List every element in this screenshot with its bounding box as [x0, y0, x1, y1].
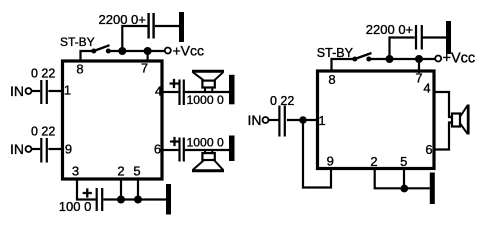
wire cap to pin9: [48, 148, 62, 150]
node junction pin5 (right): [400, 185, 408, 193]
wire 2200uF branch (left): [122, 26, 147, 51]
wire pin8 to switch (right): [332, 59, 355, 71]
ground bar (bottom right): [430, 173, 435, 205]
pin 6 label (left IC): [154, 142, 161, 157]
terminal +Vcc (left): [165, 43, 204, 59]
svg-text:2: 2: [117, 164, 124, 179]
node junction pin7 (left rail): [144, 47, 152, 55]
wire pin5 stub (right): [403, 170, 405, 189]
svg-text:2200 0+: 2200 0+: [366, 22, 413, 37]
speaker LS2 (left ch2): [192, 150, 224, 171]
pin 5 label (right IC): [400, 154, 407, 169]
wire cap to ground (right 2200): [422, 36, 446, 38]
ground bar (right 2200): [446, 21, 451, 54]
capacitor 0.22 input1 (left): [41, 80, 47, 104]
input terminal IN (right): [248, 112, 269, 128]
wire feedback loop to pin9 (right): [303, 120, 331, 188]
switch SW1 ST-BY (left): [91, 45, 111, 53]
wire pin2 stub (left): [120, 181, 122, 200]
wire cap to ground (left 2200): [155, 25, 179, 27]
wire Vcc rail (right): [369, 58, 435, 60]
svg-text:+Vcc: +Vcc: [173, 43, 205, 59]
terminal +Vcc (right): [435, 51, 475, 67]
wire Vcc rail (left): [109, 50, 164, 52]
input terminal IN2 (left bottom): [10, 141, 32, 157]
pin 2 label (right IC): [370, 154, 377, 169]
svg-text:+: +: [169, 74, 179, 94]
wire pin4 to speaker (right): [436, 92, 452, 117]
pin 4 label (right IC): [423, 81, 430, 96]
polarity + (100uF cap): [82, 183, 92, 203]
label ST-BY (left): [60, 35, 95, 49]
svg-text:6: 6: [425, 142, 432, 157]
svg-text:9: 9: [65, 142, 72, 157]
wire pin8 to switch (left): [81, 51, 94, 61]
svg-text:+: +: [169, 132, 179, 152]
ground bar (ch2): [229, 136, 235, 162]
pin 1 label (right IC): [318, 113, 325, 128]
ground bar (bottom left): [166, 184, 171, 215]
svg-text:8: 8: [328, 72, 335, 87]
wire cap to pin1 (right): [287, 119, 317, 121]
wire cap to ground (ch1): [185, 91, 229, 93]
pin 4 label (left IC): [155, 84, 162, 99]
pin 8 label (right IC): [328, 72, 335, 87]
svg-text:1: 1: [64, 83, 71, 98]
switch SW2 ST-BY (right): [352, 53, 371, 62]
wire pin7 stub (right): [418, 59, 420, 73]
capacitor 2200.0 (left): [149, 13, 154, 39]
node junction pin7 (right rail): [415, 55, 423, 63]
pin 9 label (left IC): [65, 142, 72, 157]
pin 1 label (left IC): [64, 83, 71, 98]
svg-text:0 22: 0 22: [31, 67, 55, 81]
value label 1000 0 (ch2): [187, 135, 224, 149]
svg-text:5: 5: [400, 154, 407, 169]
value label 2200 0+ (left): [99, 12, 146, 27]
node junction cap branch (left rail): [118, 47, 126, 55]
wire cap to ground (bottom left): [103, 198, 166, 200]
svg-text:8: 8: [76, 62, 83, 77]
svg-text:4: 4: [155, 84, 162, 99]
svg-text:6: 6: [154, 142, 161, 157]
svg-text:ST-BY: ST-BY: [317, 46, 354, 60]
node junction pin5 (left): [134, 196, 142, 204]
value label 0 22 (right): [270, 94, 294, 108]
svg-text:1: 1: [318, 113, 325, 128]
wire cap to pin1: [48, 90, 62, 92]
pin 9 label (right IC): [327, 154, 334, 169]
IC U2 (right amplifier box, bridge): [318, 71, 435, 169]
polarity + (ch1 cap): [169, 74, 179, 94]
wire pin6 to output cap (left ch2): [164, 149, 179, 151]
capacitor 2200.0 (right): [416, 25, 422, 50]
wire IN1 to cap: [32, 90, 41, 92]
svg-text:3: 3: [72, 164, 79, 179]
svg-text:IN: IN: [10, 141, 24, 157]
wire pin4 to output cap (left ch1): [164, 91, 179, 93]
ground bar (left 2200): [179, 12, 184, 42]
value label 2200 0+ (right): [366, 22, 413, 37]
capacitor 0.22 input2 (left): [41, 138, 47, 163]
value label 1000 0 (ch1): [187, 93, 224, 107]
wire pin5 stub (left): [137, 181, 139, 200]
polarity + (ch2 cap): [169, 132, 179, 152]
value label 100 0: [59, 199, 92, 214]
wire IN2 to cap: [32, 148, 41, 150]
label ST-BY (right): [317, 46, 354, 60]
svg-text:2: 2: [370, 154, 377, 169]
speaker LS3 (right bridge): [452, 105, 468, 135]
pin 2 label (left IC): [117, 164, 124, 179]
pin 7 label (right IC): [415, 71, 422, 86]
value label 0 22 (input2): [31, 125, 55, 139]
svg-text:IN: IN: [10, 83, 24, 99]
wire pin2 stub (right): [375, 170, 430, 189]
node junction input/feedback (right): [299, 116, 307, 124]
speaker LS1 (left ch1): [192, 71, 224, 92]
pin 8 label (left IC): [76, 62, 83, 77]
svg-text:9: 9: [327, 154, 334, 169]
capacitor 1000.0 ch1 (left): [180, 80, 184, 106]
svg-text:1000 0: 1000 0: [187, 135, 224, 149]
svg-text:1000 0: 1000 0: [187, 93, 224, 107]
svg-text:7: 7: [141, 61, 148, 76]
wire pin3 to bypass cap (left): [77, 181, 96, 200]
ground bar (ch1): [229, 75, 235, 105]
pin 3 label (left IC): [72, 164, 79, 179]
capacitor 0.22 input (right): [279, 106, 284, 137]
wire cap to ground (ch2): [185, 149, 229, 151]
svg-text:2200 0+: 2200 0+: [99, 12, 146, 27]
svg-text:5: 5: [133, 164, 140, 179]
svg-text:4: 4: [423, 81, 430, 96]
wire 2200uF branch (right): [390, 38, 415, 60]
input terminal IN1 (left top): [10, 83, 32, 99]
svg-text:IN: IN: [248, 112, 262, 128]
svg-text:100 0: 100 0: [59, 199, 92, 214]
pin 7 label (left IC): [141, 61, 148, 76]
wire pin7 stub (left): [147, 51, 149, 63]
svg-text:0 22: 0 22: [31, 125, 55, 139]
pin 6 label (right IC): [425, 142, 432, 157]
capacitor 100.0 (left): [97, 188, 103, 211]
wire IN to cap (right): [269, 119, 279, 121]
IC U1 (left amplifier box): [63, 61, 163, 179]
value label 0 22 (input1): [31, 67, 55, 81]
svg-text:0 22: 0 22: [270, 94, 294, 108]
node junction cap branch (right rail): [386, 55, 394, 63]
capacitor 1000.0 ch2 (left): [180, 138, 184, 162]
svg-text:ST-BY: ST-BY: [60, 35, 95, 49]
node junction pin2 (left): [117, 196, 125, 204]
wire pin6 to speaker (right): [436, 123, 452, 150]
pin 5 label (left IC): [133, 164, 140, 179]
